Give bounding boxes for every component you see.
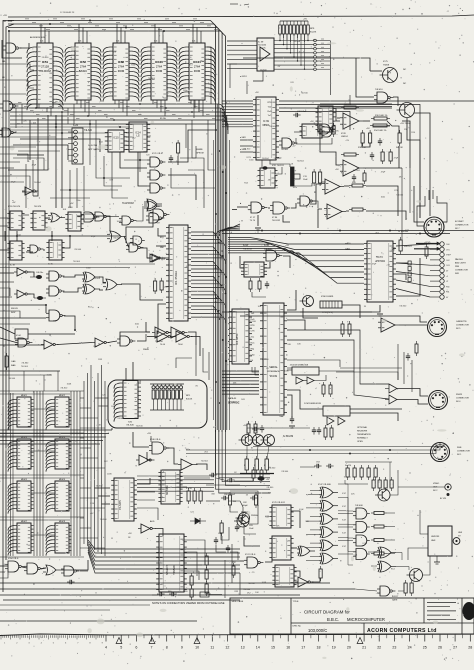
svg-text:74LS30: 74LS30 [84, 130, 93, 132]
wire [193, 100, 195, 118]
wire [22, 191, 37, 193]
svg-text:47pF: 47pF [91, 236, 96, 238]
wire bus exit curve [225, 224, 240, 230]
wire [296, 138, 332, 144]
wire data bus elbow [223, 120, 228, 134]
ground [289, 425, 295, 427]
svg-text:uPD7002: uPD7002 [375, 260, 386, 263]
wire address bus vertical [215, 104, 217, 432]
wire fb [336, 108, 341, 121]
wire paddle bold2 [414, 248, 439, 250]
svg-text:MEM 4: MEM 4 [59, 437, 66, 439]
svg-text:ROM: ROM [194, 69, 201, 73]
wire [243, 58, 370, 71]
svg-text:B.B.C.: B.B.C. [327, 617, 339, 622]
wire [294, 571, 300, 577]
wire [257, 215, 259, 226]
wire down from pins [330, 74, 332, 95]
svg-text:LS: LS [136, 134, 139, 137]
wire [291, 511, 300, 528]
wire [387, 121, 399, 133]
flip-flop IC91b [260, 168, 275, 188]
wire video bus c [253, 443, 444, 447]
wire [0, 344, 44, 346]
gate NAND IC63 [380, 586, 390, 596]
wire RAM column bus [42, 391, 44, 556]
wire bus to serial [222, 380, 259, 382]
wire data bus D0 [10, 103, 219, 105]
capacitor C80 [159, 592, 161, 596]
junction dots fan [215, 233, 217, 235]
wire [397, 400, 428, 405]
wire [398, 486, 445, 488]
svg-text:IC47: IC47 [342, 493, 346, 495]
Econet DIN connector SK7 [424, 217, 444, 237]
wire [112, 152, 128, 198]
svg-text:1CM DS88LS120: 1CM DS88LS120 [304, 403, 322, 405]
wire [222, 311, 372, 313]
svg-text:27128: 27128 [41, 65, 49, 69]
ruler cm ticks [105, 635, 107, 642]
svg-text:11: 11 [210, 646, 214, 650]
svg-text:IC100: IC100 [155, 60, 163, 64]
wire bus-IC69 low [222, 121, 253, 123]
wire bus edge L [212, 140, 214, 420]
svg-text:CONNECTOR: CONNECTOR [457, 451, 470, 453]
resistor R51 [255, 459, 258, 470]
gate inverter IC32b [176, 331, 187, 342]
transistor Q2 BC239 [253, 435, 264, 446]
wire paddle feed [396, 280, 430, 286]
svg-text:IC47 74LS86: IC47 74LS86 [318, 484, 332, 486]
wire long bundle 1 [88, 542, 240, 553]
wire [120, 332, 150, 340]
wire [13, 145, 68, 160]
svg-text:2764: 2764 [118, 65, 125, 69]
gate XOR IC47.4 [322, 540, 333, 551]
wire [10, 126, 130, 128]
gate OR IC33a [147, 201, 157, 211]
svg-text:8: 8 [166, 646, 168, 650]
svg-text:IC40 74LS: IC40 74LS [150, 439, 161, 441]
wire paddle feed [396, 272, 430, 276]
svg-text:20: 20 [347, 646, 351, 650]
wire long bundle 6 [88, 552, 240, 573]
wire RAM right bus [73, 391, 75, 556]
wire [396, 553, 402, 561]
wire [350, 413, 398, 421]
title block divider v2 [423, 598, 425, 623]
svg-text:RxD: RxD [268, 111, 272, 113]
wire [397, 344, 399, 380]
wire [267, 446, 269, 459]
wire ADC fan 2 [228, 242, 364, 255]
gate XOR IC47.1 [322, 500, 333, 511]
wire data drop [55, 116, 57, 124]
svg-text:ICN: ICN [128, 422, 132, 424]
ruler triangle mark [357, 638, 363, 644]
wire [264, 262, 270, 268]
gate IC74LS10 [377, 92, 388, 103]
gate NAND IC46 [266, 250, 277, 261]
wire bus edge R [228, 140, 230, 430]
RAM IC54 4816 [55, 397, 69, 427]
gate IC16b [2, 128, 11, 137]
wire [51, 231, 53, 241]
transistor Q3 BC239 [264, 435, 275, 446]
gate inverter IC80 [298, 577, 308, 587]
svg-text:74LS00: 74LS00 [260, 69, 268, 71]
svg-text:100n: 100n [183, 90, 187, 92]
gate XOR IC24b [85, 284, 95, 294]
gate XOR IC24a [85, 272, 95, 282]
wire [0, 80, 34, 88]
svg-text:RTS: RTS [251, 325, 256, 327]
IC40 DIP edge [318, 106, 333, 132]
svg-text:75058: 75058 [383, 65, 390, 67]
wire [240, 560, 244, 562]
resistor R44 [415, 344, 418, 353]
resistor R21 [381, 152, 384, 161]
wire KB row link2 [99, 405, 109, 407]
gate IC21a [150, 157, 160, 167]
wire bus to IC69 [222, 109, 253, 111]
svg-text:47pF: 47pF [381, 172, 386, 174]
gate inverter IC41 [139, 455, 149, 465]
svg-text:IC47: IC47 [342, 546, 346, 548]
resistor RW0 [374, 512, 384, 515]
wire bus to IC52 [82, 28, 84, 44]
transistor Q12 [378, 489, 390, 501]
diode D9 [37, 296, 43, 300]
wire xor in [310, 489, 319, 491]
svg-text:74LS00: 74LS00 [399, 306, 407, 308]
wire audio bus 3 [225, 430, 270, 485]
wire bundle left [137, 486, 214, 488]
svg-text:12: 12 [225, 646, 229, 650]
wire [209, 594, 222, 596]
resistor RT0 [346, 468, 349, 477]
wire long bundle 2 [88, 544, 240, 557]
wire ADC fan 3 [228, 244, 364, 261]
wire RAM row link2 [0, 393, 70, 395]
svg-text:RDY: RDY [161, 259, 166, 261]
Cassette DIN connector SK5 [428, 318, 447, 337]
wire CPU pin fan [191, 254, 222, 260]
wire bundle left [137, 483, 214, 485]
capacitor C31 [290, 418, 294, 420]
svg-text:SERPROC: SERPROC [228, 403, 240, 405]
svg-text:74LS10: 74LS10 [60, 387, 68, 389]
svg-text:IC51: IC51 [42, 60, 48, 64]
wire [77, 215, 82, 217]
wire [184, 477, 210, 479]
wire [96, 216, 110, 231]
svg-text:TMS5220: TMS5220 [174, 564, 176, 575]
wire IC69 right 3 [279, 107, 392, 109]
svg-text:3x BC239: 3x BC239 [283, 436, 294, 438]
wire [195, 345, 197, 376]
wire IC39 right pins to pins [274, 40, 314, 42]
wire [208, 120, 215, 170]
wire RAM row link [0, 516, 84, 518]
wire [268, 207, 270, 209]
svg-text:25: 25 [423, 646, 427, 650]
wire CPU pin fan [191, 247, 216, 253]
wire [111, 428, 113, 430]
svg-text:74LS04: 74LS04 [148, 78, 156, 80]
capacitor C40 electrolytic [36, 275, 42, 279]
wire [0, 338, 18, 343]
wire IC39 left pin [227, 45, 257, 47]
wire [198, 100, 200, 112]
svg-text:SIDE CASE: SIDE CASE [232, 600, 244, 603]
svg-text:VIDEO: VIDEO [433, 483, 440, 485]
driver ICM DS88LS08 [292, 367, 319, 375]
gate inverter IC28a [17, 290, 25, 298]
svg-text:P7#8 [PL 5]: P7#8 [PL 5] [322, 312, 333, 314]
wire CPU pin fan [191, 243, 225, 249]
svg-text:▸ SER: ▸ SER [240, 136, 246, 139]
wire [370, 70, 382, 72]
svg-text:560pF: 560pF [242, 505, 248, 507]
svg-text:8D 3A: 8D 3A [160, 117, 166, 120]
wire RAM right bus [79, 391, 81, 556]
wire CPU pin fan [191, 317, 225, 323]
capacitor C66 [69, 580, 71, 584]
wire [345, 461, 392, 463]
IC78 flip-flop [275, 565, 294, 587]
wire [310, 201, 318, 208]
keyboard RP1 pullup resistors [150, 383, 184, 385]
wire [422, 556, 430, 575]
wire [420, 510, 428, 534]
wire [265, 557, 272, 562]
transistor Q13 2N3904 [239, 513, 250, 524]
svg-text:26: 26 [438, 646, 442, 650]
wire IC100 to data bus [164, 100, 166, 116]
wire [85, 213, 92, 215]
capacitor C32 [312, 429, 316, 431]
svg-text:28: 28 [468, 646, 472, 650]
resistor R80 [404, 583, 407, 593]
svg-text:47pF: 47pF [299, 509, 304, 511]
resistor R56 [332, 126, 335, 134]
resistor R31 [258, 281, 261, 289]
svg-text:74LS00: 74LS00 [266, 487, 274, 489]
gate inverter IC44b [44, 340, 53, 349]
resistor R47 [254, 424, 257, 433]
svg-text:5x 470: 5x 470 [345, 465, 352, 467]
wire [120, 152, 147, 168]
svg-text:wAD0: wAD0 [345, 242, 351, 245]
wire RAM row link2 [0, 435, 70, 437]
wire [208, 352, 210, 380]
wire bus to IC101 [192, 24, 194, 43]
svg-text:74LS04: 74LS04 [34, 182, 42, 184]
resistor R43b [330, 428, 333, 437]
gate inverter IC42 [181, 459, 192, 470]
transistor Q14 [410, 569, 423, 582]
wire [99, 277, 106, 283]
wire [20, 43, 29, 48]
wire [396, 262, 408, 264]
wire [16, 231, 18, 241]
svg-text:CH0: CH0 [446, 244, 450, 246]
junction dots buses [215, 129, 217, 131]
wire [139, 152, 141, 172]
resistor RU2 [384, 480, 387, 488]
wire [28, 272, 34, 277]
wire RAM right bus [76, 391, 78, 556]
wire bus to serial [222, 370, 259, 372]
wire [287, 360, 340, 367]
title block divider h [291, 622, 474, 624]
wire bus exit curve [216, 230, 241, 236]
svg-text:IC76 74LS74: IC76 74LS74 [272, 502, 286, 504]
gate inverter IC16 [25, 187, 33, 195]
wire audio bus 0 [216, 430, 271, 474]
wire data drop [73, 104, 75, 124]
gate ds08 tri b [307, 377, 314, 384]
wire xor in [310, 555, 319, 557]
wire KB column [101, 365, 103, 554]
svg-text:IC46: IC46 [264, 245, 270, 247]
bus wire labels [25, 18, 29, 20]
wire [270, 160, 290, 167]
wire [414, 186, 424, 222]
resistor R60 [187, 491, 190, 501]
wire [192, 120, 204, 188]
wire KB column [90, 365, 92, 548]
gate NAND IC45b [120, 336, 130, 346]
IC31 flip-flop [33, 211, 45, 230]
svg-text:IC91 74LS74: IC91 74LS74 [272, 165, 285, 167]
svg-text:5: 5 [120, 646, 122, 650]
wire bus-IC69 low [222, 123, 253, 125]
wire [355, 589, 377, 591]
wire [108, 341, 117, 343]
wire bus to serial [222, 393, 259, 395]
wire RAM-KB bus [0, 443, 100, 445]
wire and out [387, 553, 395, 555]
transistor Q9 BC239 [303, 296, 314, 307]
svg-text:MEM 2: MEM 2 [59, 395, 66, 397]
gate AND IC48.0 [356, 508, 367, 519]
svg-text:AUD: AUD [150, 520, 155, 523]
svg-text:3 x 1K: 3 x 1K [186, 488, 193, 490]
wire bus to ACIA [228, 329, 229, 331]
wire [0, 565, 8, 567]
wire bus extra2 [223, 110, 225, 430]
wire RAM left bus [12, 393, 14, 556]
svg-text:100n: 100n [76, 200, 80, 202]
wire bus to ACIA [228, 317, 229, 319]
RAM IC56 4816 [55, 439, 69, 469]
wire [178, 594, 196, 596]
wire IC52 to data bus [84, 100, 86, 112]
wire ADC fan 6 [228, 251, 364, 278]
svg-text:CTS: CTS [251, 331, 256, 333]
wire [10, 123, 215, 125]
wire [43, 375, 45, 391]
wire xor chain [338, 511, 353, 538]
wire KB column [83, 381, 85, 544]
wire [184, 571, 199, 580]
IC34 flip-flop [68, 212, 81, 231]
wire [137, 478, 150, 484]
gate OR IC25b [106, 279, 117, 290]
resistor R71 [252, 470, 255, 478]
title block frame [230, 598, 474, 634]
wire and out [387, 539, 395, 541]
wire [0, 323, 30, 325]
svg-text:ROM: ROM [118, 69, 125, 73]
wire CPU pin fan [191, 262, 216, 268]
wire RAM left bus [10, 393, 12, 556]
resistor R62 [199, 491, 202, 501]
ruler triangle mark [194, 638, 200, 644]
wire [349, 95, 351, 104]
CPU IC1 6502 [169, 225, 188, 321]
wire [22, 567, 27, 568]
wire IC52 to data bus [76, 100, 78, 104]
wire [23, 371, 25, 391]
gate NAND extra2 [122, 216, 131, 225]
resistor RT4 [374, 468, 377, 477]
wire [0, 225, 8, 227]
junction [74, 329, 76, 331]
wire CPU pin fan [191, 239, 222, 245]
gate XOR IC47.0 [322, 487, 333, 498]
svg-text:NC: NC [403, 69, 407, 71]
wire [224, 560, 226, 598]
wire [184, 540, 205, 556]
resistor R61 [193, 491, 196, 501]
svg-text:IC28: IC28 [341, 133, 346, 135]
receiver DS88LS120 [323, 406, 350, 416]
wire long C [0, 594, 300, 596]
wire bus to ACIA [228, 358, 229, 360]
svg-text:74 74: 74 74 [250, 220, 256, 222]
svg-text:UHF: UHF [431, 540, 436, 542]
svg-text:8x10K: 8x10K [186, 399, 193, 401]
wire IC51 to data bus [38, 104, 40, 108]
wire CPU pin fan [191, 273, 225, 279]
wire bus to IC101 [196, 28, 198, 44]
wire double b [320, 106, 392, 108]
svg-text:2C199: 2C199 [270, 375, 278, 378]
IC44 rect [15, 329, 28, 339]
wire [294, 183, 312, 186]
wire IC69 left low [240, 139, 253, 141]
resistor R81 [410, 583, 413, 593]
wire [314, 375, 326, 381]
resistor R63 [220, 523, 223, 533]
wire econet drop [414, 113, 430, 216]
wire double a [320, 103, 392, 105]
wire 1MHz bus a [222, 230, 474, 232]
wire [320, 132, 340, 165]
wire RAM row link [0, 474, 84, 476]
svg-text:CASSETTE: CASSETTE [456, 320, 467, 323]
svg-text:CH3: CH3 [446, 265, 450, 267]
wire bus to serial [222, 383, 259, 385]
wire [45, 217, 50, 219]
IC38 flip-flop [49, 240, 62, 260]
resistor R43 [177, 143, 180, 153]
wire [230, 64, 237, 88]
